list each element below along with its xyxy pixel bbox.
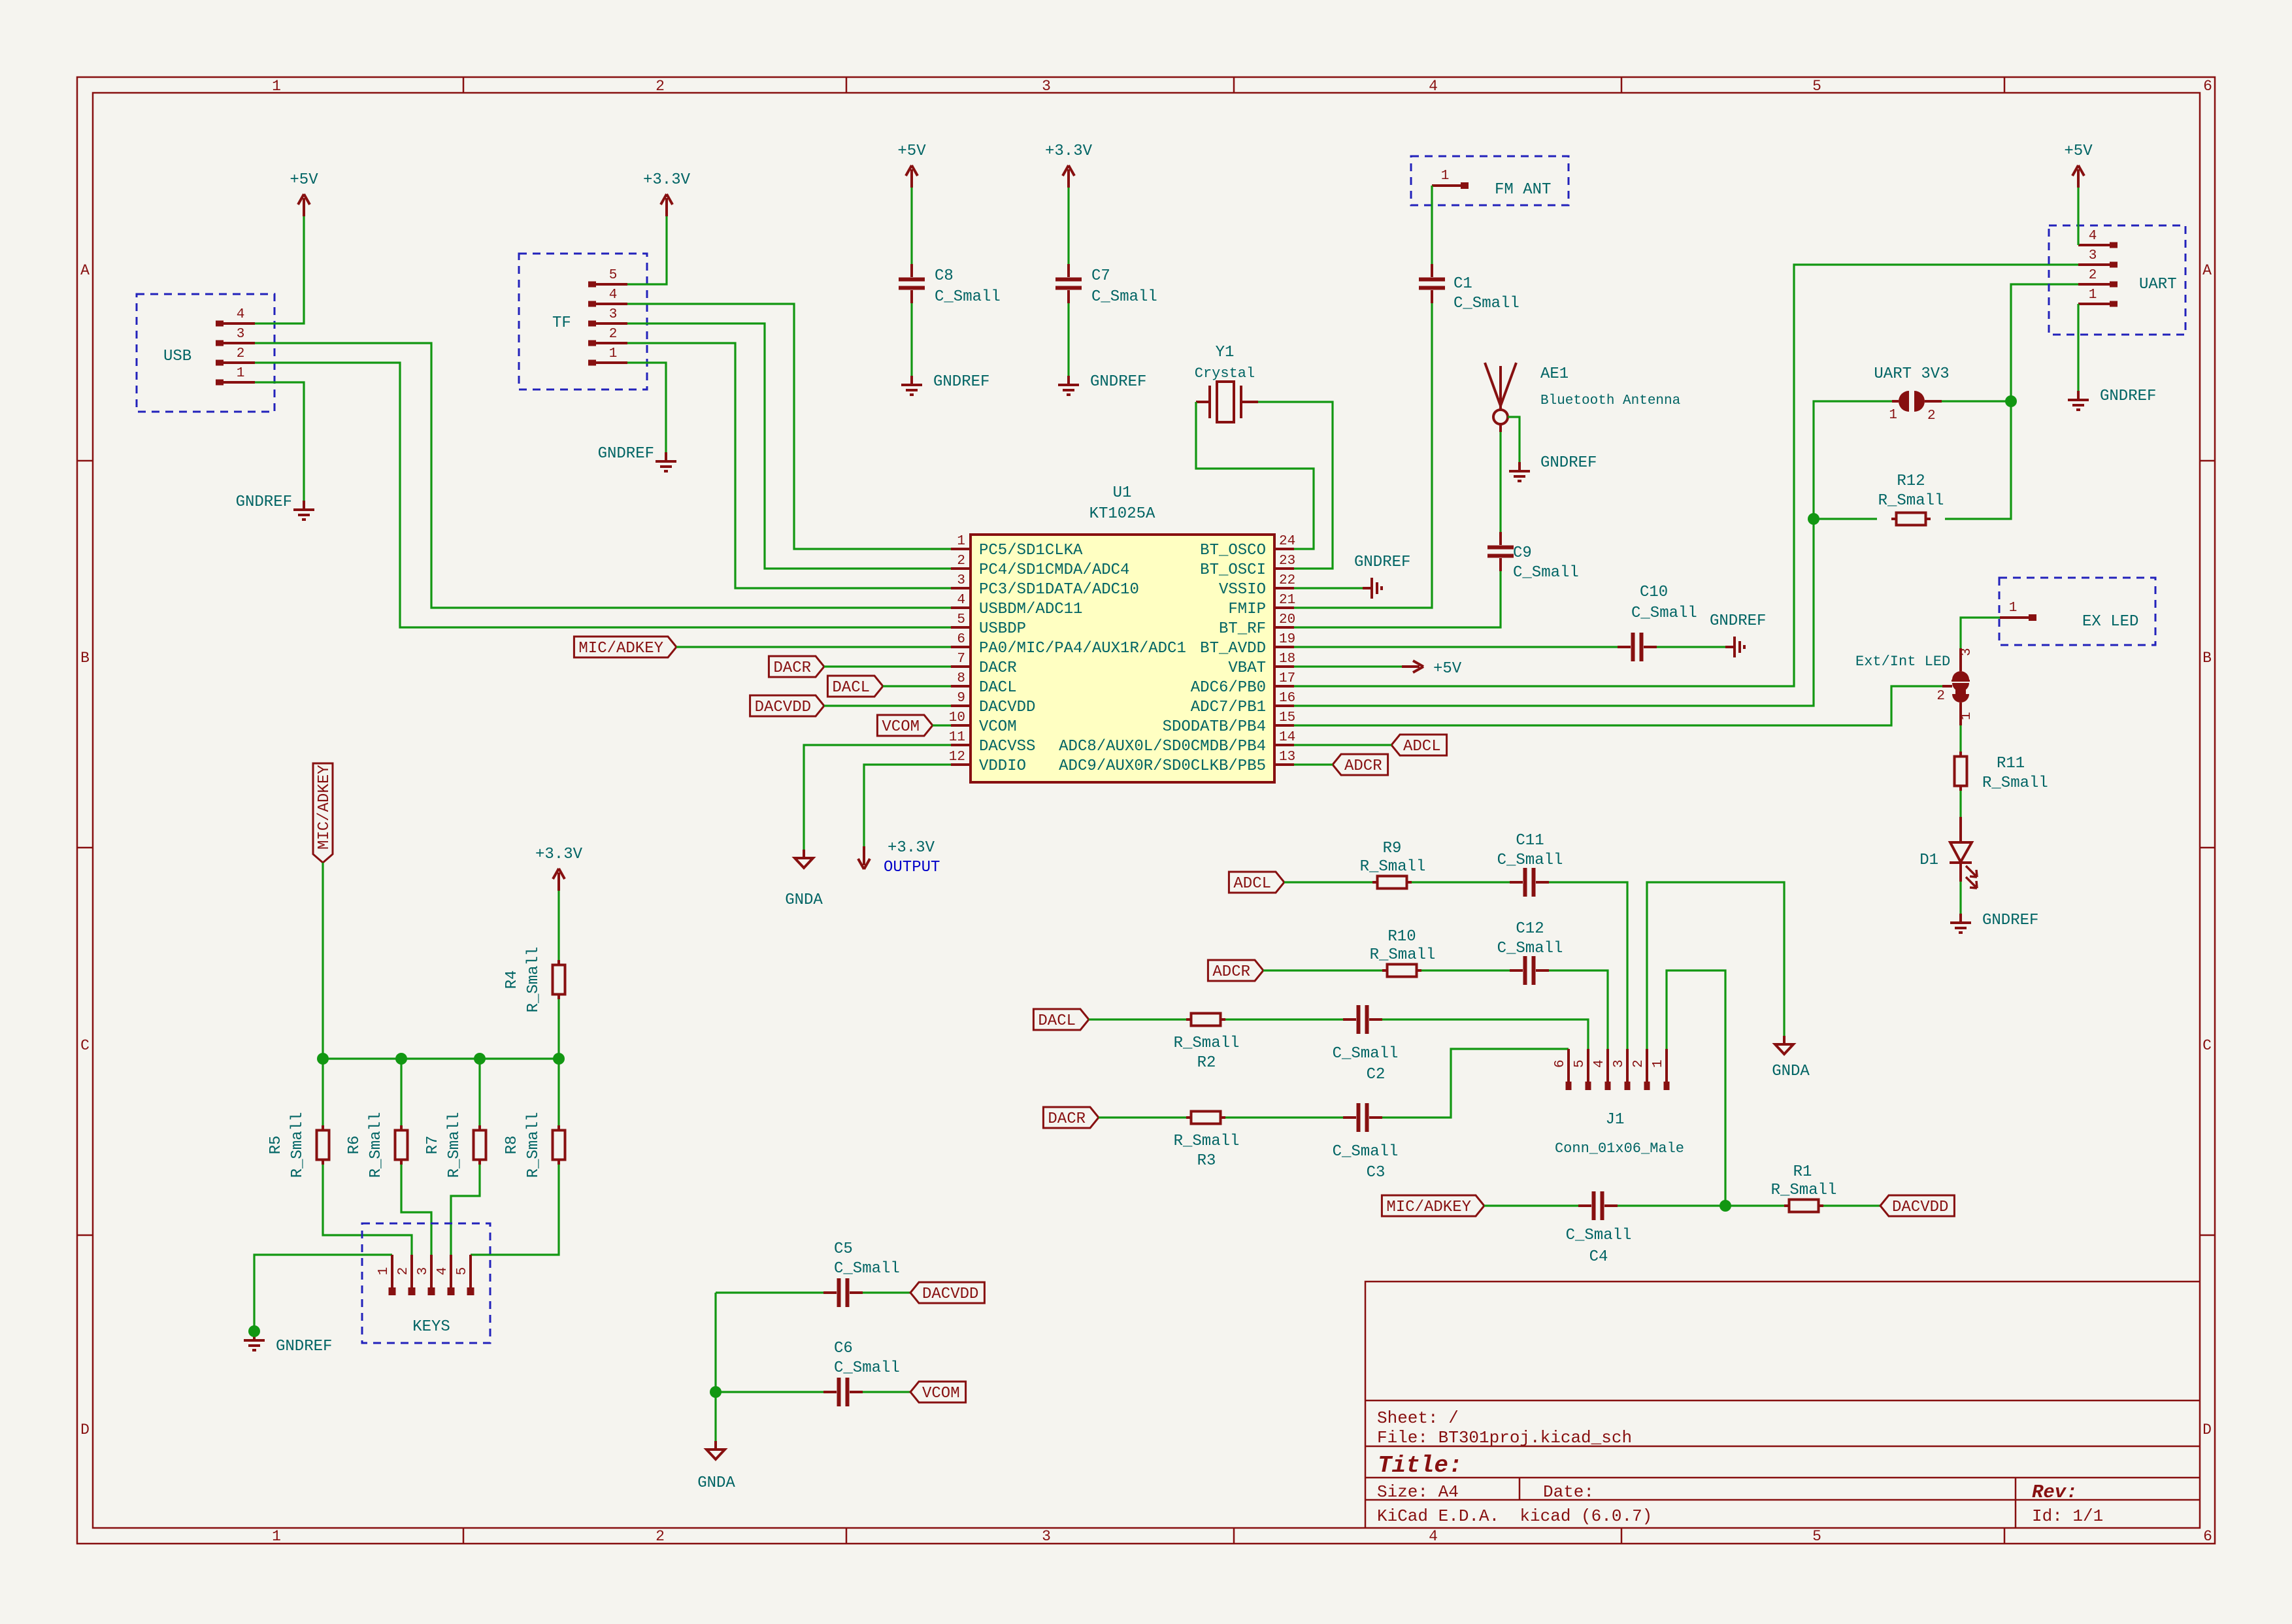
svg-text:Y1: Y1 [1216,344,1235,361]
svg-text:USBDM/ADC11: USBDM/ADC11 [979,601,1082,618]
svg-text:ADC9/AUX0R/SD0CLKB/PB5: ADC9/AUX0R/SD0CLKB/PB5 [1059,757,1266,775]
svg-text:R3: R3 [1197,1152,1216,1170]
wire USB pin1 to ground [255,382,304,501]
svg-text:C_Small: C_Small [834,1260,900,1278]
svg-text:21: 21 [1279,593,1295,608]
svg-text:VCOM: VCOM [882,718,920,736]
wire ExtInt LED pin1 to R11 [1959,725,1961,755]
svg-text:DACVDD: DACVDD [979,699,1035,716]
resistor R10 [1382,965,1421,977]
svg-text:DACL: DACL [979,679,1017,697]
svg-text:14: 14 [1279,730,1295,745]
junction at C6 [710,1386,722,1398]
TF pin 5 [588,282,596,288]
svg-text:C_Small: C_Small [1513,564,1579,582]
TF pin 2 [588,340,596,346]
svg-text:C10: C10 [1640,584,1668,601]
wire DACR to U1 pin7 [824,665,951,667]
U1 pin 9 DACVDD [951,704,971,707]
svg-text:6: 6 [2203,1528,2212,1545]
svg-text:D: D [80,1421,90,1438]
wire U1 pin19 BT_AVDD to C10 [1294,646,1618,648]
hierarchical label ADCL at U1 pin14 [1391,735,1447,755]
svg-text:2: 2 [609,327,618,342]
svg-text:DACVDD: DACVDD [922,1285,978,1303]
svg-text:BT_RF: BT_RF [1219,620,1266,638]
wire +5V to C8 [910,188,912,264]
hierarchical label DACVDD at R1 [1880,1195,1954,1216]
svg-text:C3: C3 [1367,1164,1386,1182]
USB pin 2 [216,360,224,366]
wire GNDA net to C5 [716,1291,823,1293]
svg-text:C1: C1 [1453,275,1472,293]
wire C6 to VCOM label [863,1391,910,1393]
wire DACL to U1 pin8 [883,685,951,687]
svg-text:7: 7 [957,652,965,667]
svg-text:DACL: DACL [1038,1012,1076,1030]
hierarchical label MIC/ADKEY vertical [313,763,333,863]
svg-text:Id: 1/1: Id: 1/1 [2032,1506,2103,1526]
EX LED pin 1 [2000,616,2029,619]
capacitor C2 [1357,1005,1369,1034]
U1 pin 21 FMIP [1274,606,1294,609]
wire EX LED to ExtInt LED pin3 [1961,618,2000,648]
svg-text:GNDREF: GNDREF [1540,454,1597,472]
svg-text:Conn_01x06_Male: Conn_01x06_Male [1555,1140,1684,1157]
wire C9 to U1 pin20 BT_RF [1294,571,1501,627]
KEYS pin 2 [410,1255,413,1287]
svg-text:VCOM: VCOM [979,718,1017,736]
resistor R8 [553,1125,565,1165]
wire TF pin1 to ground [627,363,666,452]
svg-text:GNDREF: GNDREF [1090,373,1146,391]
svg-text:BT_AVDD: BT_AVDD [1200,640,1266,657]
wire ADCR to R10 [1263,969,1382,971]
wire C5 to DACVDD label [863,1291,910,1293]
wire key bus [323,1057,559,1059]
crystal Y1 [1196,382,1258,422]
svg-text:+5V: +5V [290,171,318,189]
U1 pin 6 PA0/MIC/PA4/AUX1R/ADC1 [951,646,971,648]
USB pin 3 [216,340,224,346]
svg-text:1: 1 [1889,408,1897,423]
svg-text:C_Small: C_Small [1333,1143,1399,1161]
ground GNDA at J1 [1775,1036,1793,1054]
svg-text:TF: TF [552,314,571,332]
svg-text:A: A [80,262,90,279]
wire Y1 right to U1 pin23 [1258,402,1333,569]
svg-text:+5V: +5V [897,142,926,160]
svg-text:2: 2 [957,554,965,569]
svg-text:EX LED: EX LED [2082,613,2138,631]
wire U1 pin17 to UART pin3 [1294,265,2078,686]
J1 pin 6 [1567,1049,1570,1082]
wire bus to R6 [400,1059,402,1126]
svg-text:+3.3V: +3.3V [643,171,691,189]
svg-text:MIC/ADKEY: MIC/ADKEY [1386,1199,1471,1216]
U1 pin 19 BT_AVDD [1274,646,1294,648]
wire U1 pin22 VSSIO to ground [1294,587,1363,589]
ground GNDREF at C10 [1725,637,1744,657]
wire DACL to R2 [1089,1018,1186,1020]
U1 pin 23 BT_OSCI [1274,567,1294,570]
svg-text:C_Small: C_Small [1566,1227,1632,1244]
resistor R9 [1372,876,1412,889]
wire +3.3V to C7 [1067,188,1069,264]
svg-text:DACVDD: DACVDD [1892,1199,1948,1216]
wire U1 pin11 DACVSS to GNDA [804,745,951,850]
LED Ext/Int dual [1952,671,1970,703]
J1 pin 2 [1646,1049,1648,1082]
svg-text:1: 1 [2009,601,2018,616]
U1 pin 1 PC5/SD1CLKA [951,548,971,550]
svg-text:R12: R12 [1897,472,1925,490]
svg-text:1: 1 [376,1267,391,1276]
svg-text:C8: C8 [935,267,954,285]
svg-text:GNDA: GNDA [785,891,823,909]
svg-text:4: 4 [609,288,618,303]
resistor R4 [553,960,565,999]
capacitor C4 [1592,1191,1604,1220]
U1 pin 4 USBDM/ADC11 [951,606,971,609]
svg-text:C_Small: C_Small [1497,852,1563,869]
wire junction to C6 [716,1391,823,1393]
svg-text:GNDREF: GNDREF [933,373,989,391]
svg-text:SDODATB/PB4: SDODATB/PB4 [1163,718,1266,736]
svg-text:2: 2 [1927,408,1936,423]
power +3.3V at C7 [1063,165,1074,188]
svg-text:C_Small: C_Small [1497,940,1563,957]
svg-text:3: 3 [1612,1059,1627,1068]
svg-text:Size: A4: Size: A4 [1377,1482,1459,1502]
hierarchical label DACR at U1 pin7 [769,656,824,677]
svg-text:UART: UART [2139,276,2177,293]
junction bus at R8 [553,1053,565,1065]
svg-text:Rev:: Rev: [2032,1482,2078,1503]
svg-text:PC4/SD1CMDA/ADC4: PC4/SD1CMDA/ADC4 [979,561,1129,579]
svg-text:GNDA: GNDA [1772,1063,1810,1080]
svg-text:Bluetooth Antenna: Bluetooth Antenna [1540,393,1680,408]
wire UART pin1 to ground [2077,304,2079,391]
resistor R2 [1186,1014,1225,1026]
wire J1 pin2 to GNDA [1647,882,1784,1049]
wire UART pin4 to +5V [2077,188,2079,245]
wire U1 pin18 VBAT to +5V [1294,665,1402,667]
U1 pin 22 VSSIO [1274,587,1294,589]
junction bus at R7 [474,1053,486,1065]
svg-text:C_Small: C_Small [935,288,1001,306]
U1 pin 15 SDODATB/PB4 [1274,724,1294,727]
resistor R7 [474,1125,486,1165]
ground GNDREF at UART [2068,391,2089,410]
wire C12 to J1 pin4 [1549,970,1608,1049]
ground GNDREF at USB [293,501,314,520]
svg-text:R11: R11 [1997,755,2025,772]
power +5V at USB [298,194,310,216]
svg-text:C7: C7 [1091,267,1110,285]
svg-text:R_Small: R_Small [1370,946,1436,964]
power +3.3V at TF [661,194,673,216]
svg-text:5: 5 [1572,1059,1587,1068]
U1 pin 17 ADC6/PB0 [1274,685,1294,688]
U1 pin 8 DACL [951,685,971,688]
LED D1 [1959,817,1962,842]
wire U1 pin16 to R12 net [1294,401,1892,706]
hierarchical label VCOM at C6 [910,1382,966,1402]
connector UART sheet box [2049,225,2185,335]
svg-text:VCOM: VCOM [922,1385,960,1402]
wire AE1 to gnd branch [1508,417,1520,462]
UART pin 4 [2110,242,2118,248]
svg-text:2: 2 [1936,689,1945,704]
svg-text:FMIP: FMIP [1228,601,1266,618]
wire Y1 left to U1 pin24 [1196,402,1314,549]
capacitor C11 [1523,868,1536,897]
svg-text:18: 18 [1279,652,1295,667]
J1 pin 4 [1606,1049,1609,1082]
ground GNDREF at VSSIO [1363,578,1382,599]
svg-text:U1: U1 [1113,484,1132,502]
svg-text:A: A [2202,262,2212,279]
wire TF pin2 to U1 pin3 [627,343,951,588]
svg-text:4: 4 [1429,1528,1438,1545]
wire MIC/ADKEY to key bus [322,863,324,1059]
svg-text:3: 3 [237,327,245,342]
svg-text:VSSIO: VSSIO [1219,581,1266,599]
svg-text:12: 12 [949,750,965,765]
junction at R12 left [1808,513,1819,525]
svg-text:R_Small: R_Small [367,1112,385,1178]
LED UART 3V3 [1899,391,1909,412]
svg-text:24: 24 [1279,534,1295,549]
svg-text:R_Small: R_Small [446,1112,463,1178]
svg-text:3: 3 [1042,1528,1051,1545]
wire C10 to ground [1657,646,1725,648]
wire U1 pin14 to ADCL [1294,744,1391,746]
svg-text:19: 19 [1279,632,1295,647]
svg-text:AE1: AE1 [1540,365,1569,383]
svg-text:+3.3V: +3.3V [535,846,583,863]
svg-text:3: 3 [957,573,965,588]
svg-text:R8: R8 [503,1136,521,1155]
capacitor C9 [1487,546,1514,558]
svg-text:22: 22 [1279,573,1295,588]
U1 pin 18 VBAT [1274,665,1294,668]
svg-text:C12: C12 [1516,920,1544,938]
UART pin 2 [2110,282,2118,288]
TF pin 1 [588,360,596,366]
wire C2 to J1 pin5 [1382,1019,1588,1049]
svg-text:ADC8/AUX0L/SD0CMDB/PB4: ADC8/AUX0L/SD0CMDB/PB4 [1059,738,1266,755]
svg-text:4: 4 [237,307,245,322]
wire DACR to R3 [1099,1116,1186,1118]
UART pin 1 [2110,301,2118,307]
svg-text:R5: R5 [267,1136,285,1155]
svg-text:GNDREF: GNDREF [2100,388,2156,405]
svg-text:VBAT: VBAT [1228,659,1266,677]
svg-text:R7: R7 [424,1136,442,1155]
svg-text:15: 15 [1279,710,1295,725]
IC U1 KT1025A body [971,535,1274,782]
svg-text:3: 3 [2089,248,2097,263]
svg-text:1: 1 [272,78,281,95]
svg-text:+5V: +5V [1433,660,1462,678]
wire UART3V3 pin2 to vertical [1942,400,2011,402]
svg-text:OUTPUT: OUTPUT [884,859,940,876]
svg-text:5: 5 [455,1267,470,1276]
junction at UART3V3 pin2 [2005,395,2017,407]
wire R2 to C2 [1225,1018,1343,1020]
svg-text:+5V: +5V [2064,142,2093,160]
U1 pin 3 PC3/SD1DATA/ADC10 [951,587,971,589]
wire U1 pin12 VDDIO to +3.3V OUTPUT [864,765,951,846]
wire U1 pin13 to ADCR [1294,763,1333,765]
resistor R3 [1186,1112,1225,1124]
hierarchical label DACL at U1 pin8 [827,676,883,697]
svg-text:UART 3V3: UART 3V3 [1874,365,1949,383]
svg-text:BT_OSCO: BT_OSCO [1200,542,1266,559]
svg-text:ADCL: ADCL [1403,738,1441,755]
svg-text:5: 5 [957,612,965,627]
svg-text:1: 1 [609,346,618,361]
svg-text:USB: USB [163,348,191,365]
resistor R6 [395,1125,408,1165]
svg-text:C_Small: C_Small [1631,605,1697,622]
wire R6 to KEYS pin3 [401,1165,431,1255]
connector KEYS sheet box [362,1223,490,1343]
svg-text:R1: R1 [1793,1163,1812,1181]
ground GNDREF at C7 [1058,376,1079,395]
svg-text:R4: R4 [503,970,521,989]
hierarchical label DACR at R3 [1043,1107,1099,1128]
KEYS pin 4 [450,1255,452,1287]
hierarchical label ADCR at R10 [1208,960,1263,981]
svg-text:Date:: Date: [1543,1482,1594,1502]
svg-text:J1: J1 [1606,1111,1625,1129]
svg-text:C: C [2202,1037,2212,1054]
capacitor C5 [837,1278,850,1307]
capacitor C12 [1523,956,1536,985]
svg-text:ADC7/PB1: ADC7/PB1 [1191,699,1266,716]
wire MIC/ADKEY to C4 [1484,1204,1578,1206]
svg-text:+3.3V: +3.3V [888,839,935,857]
hierarchical label MIC/ADKEY at U1 pin6 [574,637,676,657]
wire C4 to junction [1618,1204,1725,1206]
hierarchical label DACVDD at C5 [910,1282,984,1303]
hierarchical label DACL at R2 [1033,1009,1089,1030]
U1 pin 2 PC4/SD1CMDA/ADC4 [951,567,971,570]
svg-text:PA0/MIC/PA4/AUX1R/ADC1: PA0/MIC/PA4/AUX1R/ADC1 [979,640,1186,657]
wire TF pin4 to U1 pin1 [627,304,951,549]
svg-text:D1: D1 [1919,852,1938,869]
junction C4 R1 J1pin1 [1719,1200,1731,1212]
svg-text:11: 11 [949,730,965,745]
wire TF pin5 to +3.3V [627,216,667,284]
wire DACVDD to U1 pin9 [824,704,951,706]
TF pin 3 [588,321,596,327]
junction bus at R6 [395,1053,407,1065]
svg-text:R6: R6 [346,1136,363,1155]
svg-text:GNDREF: GNDREF [276,1338,332,1355]
svg-text:Title:: Title: [1378,1452,1463,1479]
svg-text:5: 5 [1812,78,1821,95]
svg-text:R_Small: R_Small [1771,1182,1837,1199]
svg-text:ADCL: ADCL [1233,875,1271,893]
svg-text:GNDREF: GNDREF [1354,554,1410,571]
resistor R12 [1891,513,1931,525]
wire C8 to ground [910,303,912,376]
U1 pin 7 DACR [951,665,971,668]
power +5V at C8 [906,165,918,188]
wire R12 left branch [1814,518,1877,520]
svg-text:ADC6/PB0: ADC6/PB0 [1191,679,1266,697]
svg-text:2: 2 [396,1267,411,1276]
wire TF pin3 to U1 pin2 [627,323,951,569]
connector FM ANT sheet box [1411,156,1569,205]
U1 pin 13 ADC9/AUX0R/SD0CLKB/PB5 [1274,763,1294,766]
J1 pin 5 [1587,1049,1589,1082]
svg-text:R_Small: R_Small [289,1112,307,1178]
svg-text:6: 6 [2203,78,2212,95]
wire junction to R1 [1725,1204,1784,1206]
svg-text:6: 6 [957,632,965,647]
connector TF sheet box [519,254,647,389]
J1 pin 1 [1665,1049,1668,1082]
svg-text:13: 13 [1279,750,1295,765]
junction bus at R5 [317,1053,329,1065]
svg-text:C_Small: C_Small [1333,1045,1399,1063]
U1 pin 14 ADC8/AUX0L/SD0CMDB/PB4 [1274,744,1294,746]
ground GNDREF at AE1 [1509,462,1530,481]
hierarchical label ADCL at R9 [1229,872,1284,893]
svg-text:DACVDD: DACVDD [755,699,811,716]
wire C11 to J1 pin3 [1549,882,1627,1049]
svg-text:Ext/Int LED: Ext/Int LED [1855,654,1950,670]
wire U1 pin15 to ExtInt LED pin2 [1294,686,1942,725]
svg-text:GNDREF: GNDREF [236,493,292,511]
svg-text:1: 1 [272,1528,281,1545]
resistor R1 [1784,1200,1823,1212]
svg-text:R_Small: R_Small [1982,774,2048,792]
wire bus to R8 [557,1059,559,1126]
svg-text:Sheet: /: Sheet: / [1377,1408,1459,1428]
KEYS pin 3 [430,1255,433,1287]
USB pin 1 [216,380,224,386]
title block [1365,1282,2200,1528]
hierarchical label MIC/ADKEY at C4 [1382,1195,1484,1216]
svg-text:R_Small: R_Small [525,1112,542,1178]
wire KEYS pin1 to ground [254,1255,392,1331]
svg-text:4: 4 [1592,1059,1607,1068]
wire R4 to bus [557,999,559,1059]
wire FM ANT to C1 [1431,186,1433,264]
svg-text:R2: R2 [1197,1054,1216,1072]
wire R12 right to UART pin2 net [1945,284,2078,519]
ground GNDREF at TF [656,452,676,471]
svg-text:C6: C6 [834,1340,853,1357]
wire USB pin3 to U1 pin4 [255,343,951,608]
svg-text:MIC/ADKEY: MIC/ADKEY [578,640,663,657]
connector EX LED sheet box [1999,578,2155,645]
svg-text:R9: R9 [1383,840,1402,857]
svg-text:DACL: DACL [832,679,870,697]
hierarchical label DACVDD at U1 pin9 [750,695,824,716]
svg-text:2: 2 [237,346,245,361]
wire D1 to ground [1959,882,1961,914]
svg-text:6: 6 [1553,1059,1568,1068]
svg-text:+3.3V: +3.3V [1045,142,1093,160]
wire GNDA vertical [714,1293,716,1441]
